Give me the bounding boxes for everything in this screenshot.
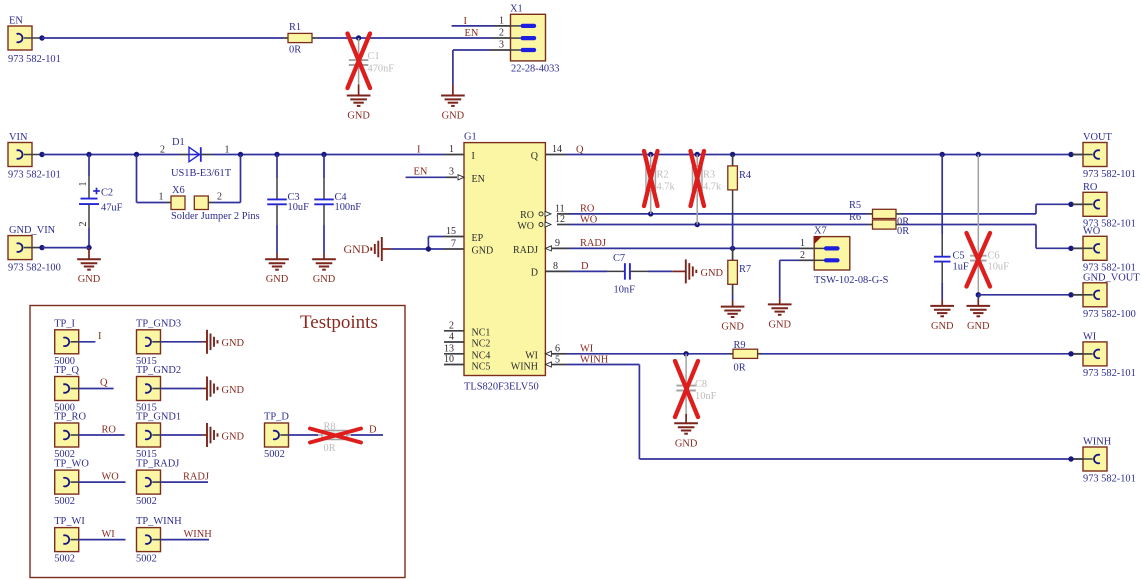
wire TP_D to R8	[288, 434, 318, 436]
junction C3 top	[274, 152, 279, 157]
wire GND_VIN to C2	[42, 247, 89, 249]
ground below C4	[323, 253, 325, 259]
svg-text:WO: WO	[102, 471, 120, 482]
svg-text:C2: C2	[101, 188, 113, 199]
svg-text:Solder Jumper 2 Pins: Solder Jumper 2 Pins	[171, 211, 260, 222]
wire EN to G1 pin 3	[406, 176, 446, 178]
resistor R7	[732, 248, 734, 260]
svg-text:X1: X1	[510, 4, 523, 15]
svg-text:TP_GND1: TP_GND1	[136, 412, 181, 423]
junction Q rail x=942.2	[940, 152, 945, 157]
no-fit cross over C1	[348, 34, 371, 89]
svg-text:2: 2	[78, 222, 89, 227]
svg-text:RADJ: RADJ	[183, 471, 209, 482]
ground below X1	[452, 85, 454, 96]
junction WINH connector	[1068, 456, 1073, 461]
solder jumper X6 pad 2	[194, 196, 208, 210]
header X1 (22-28-4033)	[511, 14, 546, 61]
svg-text:15: 15	[446, 226, 456, 237]
connector RO (973 582-101)	[1083, 192, 1107, 216]
svg-text:EN: EN	[465, 28, 479, 39]
capacitor C4 (100nF)	[323, 155, 325, 179]
svg-text:GND: GND	[222, 385, 245, 396]
testpoint TP_WI (5002)	[55, 528, 79, 552]
capacitor C6 (not fitted, 10uF)	[977, 155, 979, 256]
testpoint TP_RADJ (5002)	[137, 470, 161, 494]
svg-text:GND: GND	[347, 111, 370, 122]
svg-text:470nF: 470nF	[368, 64, 395, 75]
ground below C6	[977, 295, 979, 300]
svg-text:GND: GND	[442, 111, 465, 122]
svg-text:TP_Q: TP_Q	[54, 365, 79, 376]
solder jumper X6 pad 1	[171, 196, 185, 210]
svg-text:WINH: WINH	[511, 361, 538, 372]
svg-text:47uF: 47uF	[101, 203, 123, 214]
junction C6 / GND_VOUT	[976, 292, 981, 297]
resistor R8 (not fitted, 0R)	[318, 434, 322, 436]
svg-text:100nF: 100nF	[335, 202, 362, 213]
svg-text:973 582-101: 973 582-101	[1083, 368, 1136, 379]
svg-text:973 582-101: 973 582-101	[8, 54, 61, 65]
svg-text:Q: Q	[531, 151, 539, 162]
junction G1 pin 7	[426, 246, 431, 251]
svg-text:GND: GND	[768, 320, 791, 331]
testpoint TP_WINH (5002)	[137, 528, 161, 552]
svg-text:TP_WO: TP_WO	[54, 459, 89, 470]
resistor R9 (0R)	[729, 353, 733, 355]
junction Q rail x=697.2	[695, 152, 700, 157]
svg-text:Q: Q	[100, 378, 108, 389]
connector WO (973 582-101)	[1083, 236, 1107, 260]
svg-text:0R: 0R	[289, 45, 301, 56]
svg-text:973 582-100: 973 582-100	[1083, 309, 1136, 320]
svg-text:5002: 5002	[136, 496, 157, 507]
connector EN (973 582-101)	[8, 26, 32, 50]
wire jumper X6 pad2 to rail	[208, 202, 214, 204]
svg-text:NC4: NC4	[472, 350, 491, 361]
diode D1 US1B-E3/61T	[189, 147, 200, 162]
svg-text:US1B-E3/61T: US1B-E3/61T	[171, 168, 232, 179]
svg-text:RO: RO	[1083, 182, 1098, 193]
svg-text:GND: GND	[78, 274, 101, 285]
junction R3 bottom	[695, 222, 700, 227]
svg-text:12: 12	[555, 214, 565, 225]
capacitor C3 (10uF)	[276, 155, 278, 179]
svg-text:1: 1	[499, 16, 504, 27]
junction C4 top	[321, 152, 326, 157]
svg-text:11: 11	[555, 203, 565, 214]
svg-text:GND: GND	[313, 274, 336, 285]
svg-text:TP_RADJ: TP_RADJ	[136, 459, 179, 470]
svg-text:13: 13	[444, 343, 454, 354]
junction WI connector	[1068, 351, 1073, 356]
svg-text:X7: X7	[814, 226, 827, 237]
wire EN connector to R1	[42, 37, 283, 39]
G1 pin 9 stub	[551, 247, 569, 249]
svg-text:5002: 5002	[136, 554, 157, 565]
ground below C2	[88, 248, 90, 260]
connector GND_VIN (973 582-100)	[8, 236, 32, 260]
svg-text:GND: GND	[222, 338, 245, 349]
connector WI (973 582-101)	[1083, 342, 1107, 366]
resistor R1	[283, 37, 288, 39]
svg-text:GND: GND	[931, 321, 954, 332]
svg-text:2: 2	[217, 192, 222, 203]
G1 pin 8 stub	[545, 270, 570, 272]
junction Q rail x=1071	[1068, 152, 1073, 157]
G1 pin 6 stub	[551, 353, 567, 355]
svg-text:TP_WI: TP_WI	[54, 516, 85, 527]
testpoint TP_GND1 (5015)	[137, 423, 161, 447]
svg-text:973 582-101: 973 582-101	[8, 170, 61, 181]
svg-text:VOUT: VOUT	[1083, 132, 1113, 143]
svg-text:C1: C1	[368, 51, 380, 62]
svg-text:I: I	[417, 145, 421, 156]
ground below C5	[941, 300, 943, 306]
svg-text:GND: GND	[472, 246, 494, 257]
capacitor C1 (not fitted, 470nF)	[358, 38, 360, 60]
svg-text:WI: WI	[580, 343, 594, 354]
svg-text:GND: GND	[701, 268, 724, 279]
svg-text:RO: RO	[580, 204, 595, 215]
svg-text:R3: R3	[703, 170, 715, 181]
svg-text:0R: 0R	[897, 226, 909, 237]
svg-text:WINH: WINH	[1083, 437, 1112, 448]
G1 pin 12 stub	[557, 224, 569, 226]
wire R8 to net D	[351, 434, 383, 436]
svg-text:973 582-101: 973 582-101	[1083, 473, 1136, 484]
ground right of C7	[672, 270, 686, 272]
svg-text:VIN: VIN	[9, 132, 28, 143]
svg-text:NC5: NC5	[472, 361, 491, 372]
wire X1 pin 3 to ground	[453, 49, 490, 51]
wire R9 to WI connector	[762, 353, 1071, 355]
junction C1	[356, 35, 361, 40]
svg-text:10nF: 10nF	[695, 391, 717, 402]
op-amp/regulator G1 body	[464, 143, 545, 376]
wire X7 pin 2 to ground	[799, 259, 814, 261]
ground below X7 pin 2	[779, 298, 781, 304]
testpoint TP_Q (5000)	[55, 377, 79, 401]
svg-text:WI: WI	[102, 529, 116, 540]
svg-text:WO: WO	[517, 221, 534, 232]
svg-text:R7: R7	[739, 264, 751, 275]
svg-text:4.7k: 4.7k	[703, 182, 722, 193]
junction Q rail x=978.3	[976, 152, 981, 157]
svg-text:RO: RO	[520, 210, 534, 221]
svg-text:TP_I: TP_I	[54, 318, 75, 329]
wire WI line	[567, 353, 729, 355]
G1 pin EN input arrow	[458, 175, 464, 180]
wire R6 to WO connector	[901, 224, 1036, 226]
svg-text:C8: C8	[695, 379, 707, 390]
ground at TP_GND1	[202, 434, 207, 436]
svg-text:1: 1	[449, 144, 454, 155]
svg-text:5002: 5002	[54, 554, 75, 565]
testpoint TP_RO (5002)	[55, 423, 79, 447]
svg-text:3: 3	[449, 167, 454, 178]
junction C8 top	[683, 351, 688, 356]
svg-text:4.7k: 4.7k	[657, 182, 676, 193]
svg-text:C6: C6	[988, 251, 1000, 262]
resistor R6 (0R)	[867, 224, 873, 226]
svg-text:D: D	[369, 424, 377, 435]
svg-text:10: 10	[444, 354, 454, 365]
testpoint TP_GND2 (5015)	[137, 377, 161, 401]
ground at TP_GND2	[202, 388, 207, 390]
junction VIN connector	[39, 152, 44, 157]
svg-text:R1: R1	[289, 22, 301, 33]
svg-text:22-28-4033: 22-28-4033	[511, 64, 559, 75]
wire R1 to X1 pin 2	[318, 37, 492, 39]
svg-text:R6: R6	[849, 212, 861, 223]
svg-text:5: 5	[555, 354, 560, 365]
no-fit cross over R3	[691, 151, 705, 206]
wire WO line	[569, 224, 867, 226]
junction Q rail x=732.6	[730, 152, 735, 157]
testpoint TP_D (5002)	[265, 423, 289, 447]
ground at TP_GND3	[202, 341, 207, 343]
junction jumper branch right	[238, 152, 243, 157]
svg-text:2: 2	[160, 145, 165, 156]
junction RO connector	[1068, 202, 1073, 207]
svg-text:RO: RO	[102, 424, 117, 435]
svg-text:GND: GND	[222, 431, 245, 442]
svg-text:R4: R4	[739, 170, 752, 181]
svg-text:D: D	[531, 268, 538, 279]
svg-text:I: I	[98, 331, 102, 342]
svg-text:0R: 0R	[734, 363, 746, 374]
svg-text:2: 2	[449, 320, 454, 331]
svg-text:NC2: NC2	[472, 339, 491, 350]
capacitor C8 (not fitted, 10nF)	[685, 354, 687, 385]
svg-text:TP_WINH: TP_WINH	[136, 516, 182, 527]
wire WINH line	[567, 364, 639, 366]
svg-text:TP_GND2: TP_GND2	[136, 365, 181, 376]
svg-text:2: 2	[800, 250, 805, 261]
svg-text:GND: GND	[266, 274, 289, 285]
junction GND_VOUT connector	[1068, 292, 1073, 297]
svg-text:WI: WI	[1083, 331, 1097, 342]
wire VIN to D1	[42, 154, 180, 156]
svg-text:7: 7	[451, 239, 456, 250]
junction C2 top	[86, 152, 91, 157]
wire R5 to RO connector	[901, 213, 1036, 215]
no-fit cross over R2	[644, 151, 658, 206]
svg-text:3: 3	[499, 40, 504, 51]
svg-text:X6: X6	[172, 185, 185, 196]
svg-text:RADJ: RADJ	[580, 238, 606, 249]
G1 pin 5 stub	[551, 364, 567, 366]
testpoint TP_GND3 (5015)	[137, 330, 161, 354]
svg-text:EN: EN	[9, 16, 23, 27]
no-fit cross over C8	[675, 361, 698, 417]
svg-text:GND: GND	[967, 321, 990, 332]
svg-text:10uF: 10uF	[988, 262, 1010, 273]
svg-text:5002: 5002	[264, 449, 285, 460]
connector VOUT (973 582-101)	[1083, 143, 1107, 167]
capacitor C5 (1uF)	[941, 155, 943, 235]
resistor R4	[732, 155, 734, 166]
junction Q rail x=650.7	[648, 152, 653, 157]
svg-text:1: 1	[800, 238, 805, 249]
svg-text:TSW-102-08-G-S: TSW-102-08-G-S	[814, 275, 889, 286]
wire to solder jumper X6	[136, 155, 138, 203]
capacitor C2 (47uF) with polarity	[88, 155, 90, 177]
no-fit cross over C6	[967, 233, 991, 287]
svg-text:RADJ: RADJ	[513, 245, 538, 256]
junction EN connector	[39, 35, 44, 40]
svg-text:C5: C5	[953, 251, 965, 262]
svg-text:GND: GND	[675, 439, 698, 450]
ground below C3	[276, 253, 278, 259]
svg-text:C7: C7	[613, 253, 625, 264]
junction WO connector	[1068, 246, 1073, 251]
junction RADJ / R4 / R7	[730, 246, 735, 251]
ground below R7	[732, 301, 734, 307]
svg-text:EP: EP	[472, 233, 484, 244]
svg-text:10nF: 10nF	[614, 285, 636, 296]
ground below C8	[685, 414, 687, 424]
svg-text:8: 8	[553, 261, 558, 272]
wire Q rail	[566, 154, 1071, 156]
svg-text:GND_VOUT: GND_VOUT	[1083, 272, 1140, 283]
junction C2 / GND_VIN	[86, 245, 91, 250]
capacitor C7 (10nF)	[570, 270, 607, 272]
connector WINH (973 582-101)	[1083, 447, 1107, 471]
svg-text:1: 1	[159, 192, 164, 203]
svg-text:2: 2	[499, 28, 504, 39]
resistor R5 (0R)	[867, 213, 873, 215]
testpoint TP_WO (5002)	[55, 470, 79, 494]
wire RADJ line	[569, 247, 799, 249]
wire RO line	[569, 213, 867, 215]
svg-text:973 582-100: 973 582-100	[8, 263, 61, 274]
svg-text:NC1: NC1	[472, 327, 491, 338]
wire D1 to G1 pin I	[201, 154, 212, 156]
svg-text:R9: R9	[734, 340, 746, 351]
svg-text:TP_RO: TP_RO	[54, 412, 86, 423]
svg-text:R2: R2	[657, 170, 669, 181]
connector GND_VOUT (973 582-100)	[1083, 283, 1107, 307]
no-fit cross over R8	[310, 429, 361, 443]
svg-text:EN: EN	[414, 167, 428, 178]
svg-text:973 582-101: 973 582-101	[1083, 169, 1136, 180]
wire net I to X1 pin 1	[452, 25, 494, 27]
G1 NC pin stubs	[444, 330, 464, 332]
svg-text:G1: G1	[464, 132, 477, 143]
svg-text:D1: D1	[172, 137, 185, 148]
svg-text:10uF: 10uF	[288, 202, 310, 213]
svg-text:TLS820F3ELV50: TLS820F3ELV50	[464, 382, 539, 393]
svg-text:0R: 0R	[324, 443, 336, 454]
svg-text:14: 14	[552, 144, 562, 155]
wire C7 to ground	[630, 270, 648, 272]
wire GND_VOUT connector	[978, 294, 1071, 296]
connector VIN (973 582-101)	[8, 143, 32, 167]
svg-text:I: I	[472, 151, 475, 162]
junction GND_VIN connector	[39, 245, 44, 250]
wire ground to G1 pins 15/7	[391, 248, 444, 250]
svg-text:5002: 5002	[54, 496, 75, 507]
G1 pin 14 stub	[545, 154, 566, 156]
resistor R3 (not fitted, 4.7k)	[696, 155, 698, 167]
svg-text:WI: WI	[525, 350, 538, 361]
svg-text:TP_D: TP_D	[264, 412, 289, 423]
svg-text:4: 4	[449, 332, 454, 343]
svg-text:GND: GND	[344, 242, 370, 256]
testpoints frame	[30, 306, 405, 578]
header X7 (TSW-102-08-G-S)	[814, 237, 850, 270]
svg-text:GND_VIN: GND_VIN	[9, 225, 56, 236]
svg-text:WINH: WINH	[184, 529, 213, 540]
ground below C1	[358, 85, 360, 96]
svg-text:D: D	[581, 261, 589, 272]
resistor R2 (not fitted, 4.7k)	[650, 155, 652, 167]
svg-text:1uF: 1uF	[953, 262, 969, 273]
svg-text:Testpoints: Testpoints	[300, 312, 378, 333]
junction R2 bottom	[648, 211, 653, 216]
svg-text:6: 6	[555, 343, 560, 354]
testpoint TP_I (5000)	[55, 330, 79, 354]
svg-text:EN: EN	[472, 174, 485, 185]
svg-text:GND: GND	[721, 322, 744, 333]
svg-text:TP_GND3: TP_GND3	[136, 318, 181, 329]
junction jumper branch left	[134, 152, 139, 157]
svg-text:WO: WO	[1083, 226, 1101, 237]
svg-text:9: 9	[555, 238, 560, 249]
G1 pin 11 stub	[557, 213, 569, 215]
svg-text:R5: R5	[849, 200, 861, 211]
svg-text:1: 1	[78, 182, 89, 187]
